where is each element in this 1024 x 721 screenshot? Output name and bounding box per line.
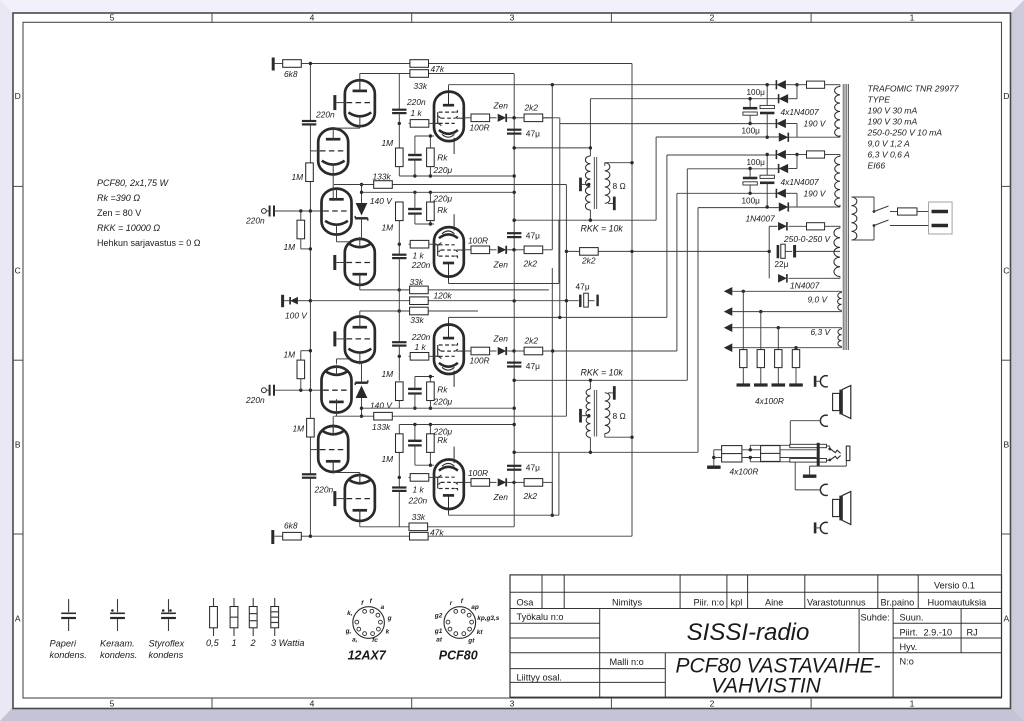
wire SRPP link upper y128.1	[333, 127, 360, 129]
wire tube V1a plate lead riser	[359, 73, 361, 90]
junction 1k-R1	[398, 355, 401, 358]
wire OPT right bar	[608, 202, 613, 204]
PSU transformer core	[842, 84, 844, 350]
junction net R1 Rk	[429, 407, 432, 410]
wire 33k-b line	[360, 310, 410, 312]
svg-text:1 k: 1 k	[411, 108, 423, 118]
legend paperi cap	[68, 599, 70, 612]
svg-text:47k: 47k	[430, 527, 444, 537]
wire 2k2 out y351.0	[543, 350, 553, 352]
wire 100R-Zen y351.0	[490, 350, 497, 352]
junction x514 y147.9	[513, 146, 516, 149]
frame tick right 3	[1002, 533, 1012, 535]
wire bank out row1	[780, 449, 817, 451]
wire bank left feed bottom y461.8	[750, 461, 795, 463]
legend resistor 0.5W	[213, 598, 215, 607]
wire D2 out	[788, 98, 797, 100]
ground bar heater 3	[772, 383, 786, 386]
wire net P1 220u leads	[414, 160, 416, 176]
wire grid chain x399.3 seg5	[398, 258, 400, 342]
svg-text:A: A	[1003, 614, 1009, 624]
wire SRPP link lower y472.5	[333, 472, 360, 474]
wire D1 out	[786, 84, 797, 86]
capacitor 220n couple P2	[392, 254, 406, 256]
wire V2a plate to 33k-b	[359, 311, 361, 317]
wire heater res bottom 4	[795, 368, 797, 384]
wire junction-2k2 y249.8	[514, 249, 524, 251]
wire rail C1 y123.6	[560, 123, 777, 125]
svg-text:8 Ω: 8 Ω	[613, 181, 626, 191]
resistor 2k2 B-feed	[580, 248, 599, 256]
wire rail B1 y98.7	[590, 98, 778, 100]
connector plug bar	[814, 376, 817, 387]
wire zener to V1d top	[361, 218, 363, 239]
junction lower 2k2 x552.7	[551, 349, 554, 352]
svg-text:Zen: Zen	[493, 334, 509, 344]
mains plug box	[929, 202, 953, 234]
resistor 33k-b	[410, 307, 429, 315]
svg-text:kondens.: kondens.	[50, 650, 87, 660]
wire heater drop 2	[760, 312, 762, 350]
svg-text:3: 3	[510, 698, 515, 708]
frame tick bottom 2	[411, 698, 413, 709]
svg-text:Varastotunnus: Varastotunnus	[807, 597, 866, 607]
wire left rail x310 upper	[309, 64, 311, 121]
page bevel background top	[0, 0, 1024, 13]
svg-text:C: C	[1003, 266, 1009, 276]
terminal bar 100V	[281, 295, 284, 307]
ground bar heater 1	[737, 383, 751, 386]
junction x514 y220.2	[513, 219, 516, 222]
wire fuse	[797, 154, 807, 156]
junction input/1M lower	[299, 389, 302, 392]
resistor 100R heater 1	[740, 350, 747, 368]
resistor 120k	[410, 297, 429, 305]
svg-text:Huomautuksia: Huomautuksia	[928, 597, 988, 607]
pentode P2	[434, 214, 464, 280]
junction capA bottom	[748, 122, 751, 125]
capacitor 220n couple P1	[392, 109, 406, 111]
legend resistor 3W	[274, 598, 276, 607]
tube V2c triode	[318, 426, 348, 472]
svg-text:3 Wattia: 3 Wattia	[271, 638, 305, 648]
wire pentode R2 plate line y515.2	[449, 514, 559, 516]
wire V2c plate lead ext	[332, 461, 334, 472]
heater arrow y327.7	[724, 323, 733, 332]
terminal bar 22u right	[793, 245, 796, 258]
PSU fuse	[807, 151, 825, 158]
frame tick left 2	[13, 359, 23, 361]
svg-text:Piir. n:o: Piir. n:o	[694, 597, 725, 607]
junction 47u P2 top	[513, 219, 516, 222]
wire net R1 top y408.2	[362, 407, 515, 409]
wire net R1 220u leads	[414, 394, 416, 409]
PSU diode D3	[776, 119, 786, 128]
svg-text:RKK = 10k: RKK = 10k	[581, 368, 624, 378]
PSU diode D2	[779, 94, 789, 103]
svg-text:Versio 0.1: Versio 0.1	[934, 581, 975, 591]
svg-text:4x1N4007: 4x1N4007	[781, 107, 820, 117]
wire junction-2k2 y482.4	[514, 481, 524, 483]
PSU rail diode D1	[776, 150, 786, 159]
wire bank mid row2	[742, 457, 761, 459]
resistor 1M left upper	[306, 163, 314, 182]
wire B+ bottom rail y536.2	[310, 535, 632, 537]
wire output line y249.8	[464, 249, 471, 251]
jack sleeve bar	[817, 443, 820, 467]
resistor 1M net	[396, 148, 404, 167]
svg-text:Malli n:o: Malli n:o	[610, 657, 644, 667]
wire 33k-low line y526.8	[360, 526, 514, 528]
svg-text:Aine: Aine	[765, 597, 783, 607]
wire input upper	[266, 210, 269, 212]
junction OPT left bar	[587, 183, 590, 186]
junction capB top	[766, 153, 769, 156]
heater arrow y291.3	[724, 287, 733, 296]
title block hline row3 left	[510, 622, 600, 624]
svg-text:220n: 220n	[406, 97, 426, 107]
wire 250V-2 out	[789, 277, 831, 279]
diode Zen y249.8	[498, 246, 507, 254]
capacitor 100u B	[760, 105, 774, 108]
wire OPT2 primary bottom lead	[589, 438, 591, 453]
svg-text:kt: kt	[477, 629, 484, 636]
switch mains bottom	[874, 220, 889, 226]
svg-text:kondens.: kondens.	[100, 650, 137, 660]
wire rail D2 y207.6	[698, 207, 779, 209]
svg-text:4x100R: 4x100R	[730, 467, 759, 477]
svg-text:TRAFOMIC TNR 29977: TRAFOMIC TNR 29977	[868, 84, 960, 94]
heater arrow y311.6	[724, 307, 733, 316]
svg-text:1: 1	[232, 638, 237, 648]
jack body rect	[846, 446, 850, 461]
transformer OPT primary coil	[585, 156, 590, 210]
input terminal upper	[262, 209, 267, 214]
wire heater drop 4	[795, 348, 797, 350]
svg-text:Rk =390 Ω: Rk =390 Ω	[97, 193, 140, 203]
wire net P1 cathode wire y136	[415, 135, 434, 137]
junction zener/Rk2-wire	[360, 191, 363, 194]
svg-text:Zen = 80 V: Zen = 80 V	[97, 208, 141, 218]
PSU diode D3	[776, 189, 786, 198]
wire rail C2 y193.3	[677, 192, 777, 194]
svg-text:100μ: 100μ	[742, 127, 761, 136]
svg-text:2k2: 2k2	[524, 103, 539, 113]
mains plug prong bottom	[932, 224, 949, 227]
resistor 133k upper	[374, 181, 393, 189]
wire net R2 Rk leads	[429, 425, 431, 434]
terminal bar OPT left	[579, 409, 582, 423]
wire x552.3 y471-482 2k2-4 corner	[551, 482, 553, 515]
ground bar jack	[803, 475, 817, 478]
legend styroflex dots	[162, 609, 165, 612]
svg-text:1N4007: 1N4007	[746, 213, 776, 223]
resistor 100R heater 3	[775, 350, 782, 368]
junction input/left-rail upper	[309, 209, 312, 212]
svg-text:TYPE: TYPE	[868, 95, 891, 105]
PSU transformer winding 190V-2	[835, 156, 840, 206]
wire output line y117.8	[464, 117, 471, 119]
junction zener/Rk3-wire low	[360, 407, 363, 410]
pentode P1 upper	[434, 88, 464, 154]
resistor 2k2 y482.4	[524, 479, 543, 487]
svg-text:kp,g3,s: kp,g3,s	[477, 615, 499, 622]
jack switch lever 2	[830, 456, 841, 461]
resistor 47k bottom	[410, 532, 429, 540]
wire heater drop 1	[742, 291, 744, 349]
svg-text:100μ: 100μ	[747, 88, 766, 97]
wire OPT1 primary bottom lead	[589, 210, 591, 220]
svg-text:Rk: Rk	[437, 205, 448, 215]
zener diode 140V lower	[356, 386, 368, 399]
junction x514 y452.3	[513, 451, 516, 454]
svg-text:220μ: 220μ	[433, 396, 453, 406]
svg-text:g2: g2	[434, 613, 443, 620]
wire V1b cathode to V1c plate	[332, 176, 334, 201]
capacitor 47u R2	[507, 465, 521, 467]
resistor 100R heater 4	[792, 350, 799, 368]
svg-text:a,: a,	[352, 637, 358, 644]
wire net R1 cathode wire y376.5	[415, 376, 434, 378]
wire 2k2-1 output to corner y117.8	[543, 117, 560, 119]
svg-text:1M: 1M	[284, 350, 296, 360]
wire tube V2a plate lead riser low	[359, 512, 361, 527]
svg-text:9,0 V 1,2 A: 9,0 V 1,2 A	[868, 139, 910, 149]
svg-text:2: 2	[710, 13, 715, 23]
wire 33k-a line	[360, 289, 410, 291]
capacitor 220n couple R1	[392, 341, 406, 343]
svg-text:PCF80, 2x1,75 W: PCF80, 2x1,75 W	[97, 178, 170, 188]
capacitor 100u A	[743, 107, 757, 110]
wire pentode R1 plate lead	[448, 317, 450, 325]
wire staircase x666.9	[666, 155, 668, 317]
junction 47u P2 bottom	[512, 248, 515, 251]
junction mains bottom	[873, 224, 876, 227]
wire V1c cathode link	[336, 235, 338, 242]
wire left rail x310 lower	[309, 479, 311, 537]
junction 47u P1 bottom	[513, 146, 516, 149]
capacitor 47u P2	[507, 232, 521, 234]
connector socket C	[820, 376, 827, 387]
wire net R2 220u leads	[414, 425, 416, 441]
capacitor 220n couple R2	[392, 486, 406, 488]
svg-text:g1: g1	[434, 628, 443, 635]
wire pentode R1 plate line y317.4	[449, 316, 667, 318]
frame tick top 2	[411, 13, 413, 22]
wire staircase x676.9	[676, 193, 678, 351]
junction capB bottom	[766, 136, 769, 139]
title block vline osa	[541, 575, 543, 609]
junction net P1 220u	[413, 174, 416, 177]
wire OPT2 secondary bottom link y437.2	[605, 436, 633, 438]
wire pentode P1 plate lead	[448, 85, 450, 92]
junction 47u R2 top	[513, 451, 516, 454]
PSU transformer primary coil	[852, 197, 857, 240]
legend resistor 1W	[233, 598, 235, 607]
wire 133k line lower	[334, 415, 567, 417]
title block hline row3 right	[893, 622, 1001, 624]
svg-text:47μ: 47μ	[526, 129, 540, 139]
junction 100V/left-rail	[309, 299, 312, 302]
mains plug prong top	[932, 210, 949, 213]
terminal bar OPT right	[613, 197, 616, 211]
resistor 100R bank B1	[761, 446, 780, 454]
tube V2b triode	[322, 367, 352, 413]
wire fuse	[797, 84, 807, 86]
svg-text:9,0 V: 9,0 V	[808, 294, 829, 304]
svg-text:8 Ω: 8 Ω	[613, 411, 626, 421]
transformer OPT primary coil	[586, 389, 591, 438]
wire vertical x552.3 lower	[551, 268, 553, 515]
svg-text:47μ: 47μ	[526, 231, 540, 241]
wire OPT2 primary top lead	[589, 380, 591, 389]
junction net P1 cath	[429, 134, 432, 137]
junction OPT2 secondary bottom	[630, 436, 633, 439]
svg-text:47k: 47k	[431, 64, 445, 74]
svg-text:g,: g,	[345, 628, 352, 635]
wire cap B leads	[766, 85, 768, 106]
svg-text:Zen: Zen	[493, 100, 509, 110]
resistor 6k8 top	[283, 60, 302, 68]
wire OPT right bar	[608, 392, 613, 394]
resistor 100R y117.8	[471, 114, 490, 122]
junction 6k8/B+ bottom	[309, 535, 312, 538]
legend styroflex cap	[168, 599, 170, 612]
tube V1b triode	[318, 129, 348, 175]
svg-text:4x100R: 4x100R	[755, 396, 784, 406]
fuse mains	[898, 208, 918, 215]
wire corner x559.8 down	[559, 118, 561, 318]
PSU rail diode D1	[776, 80, 786, 89]
PSU transformer winding 6.3V	[838, 329, 842, 346]
speaker icon	[833, 393, 840, 410]
frame tick top 4	[810, 13, 812, 22]
junction OPT1 top y147.9	[589, 146, 592, 149]
svg-text:A: A	[15, 614, 21, 624]
terminal bar 6k8 bottom	[271, 530, 274, 544]
wire staircase x698 to OPT2 bottom	[697, 451, 699, 453]
frame tick top 1	[211, 13, 213, 22]
PSU diode D2	[779, 164, 789, 173]
wire grid chain x399.3 seg6	[398, 346, 400, 381]
junction net R2 Rk	[429, 423, 432, 426]
title block hline row1	[510, 591, 1002, 593]
wire net R2 cathode wire y465.2	[415, 464, 434, 466]
svg-text:C: C	[15, 266, 21, 276]
svg-text:2k2: 2k2	[581, 256, 596, 266]
junction 6k8/B+	[309, 62, 312, 65]
wire mains bottom	[852, 239, 875, 241]
junction capB bottom	[766, 205, 769, 208]
wire C2 lead	[790, 420, 821, 422]
svg-text:220μ: 220μ	[433, 194, 453, 204]
wire staircase x687.3	[686, 169, 688, 380]
svg-text:100 V: 100 V	[285, 311, 308, 321]
tube V2a triode lower (SRPP top)	[345, 317, 375, 363]
svg-text:1: 1	[910, 698, 915, 708]
junction 47u R1 bottom	[513, 379, 516, 382]
svg-text:Styroflex: Styroflex	[149, 639, 185, 649]
junction net R1 220u	[413, 407, 416, 410]
wire grid chain x399.3 seg4	[398, 220, 400, 255]
legend resistor 2W	[252, 598, 254, 607]
svg-text:SISSI-radio: SISSI-radio	[687, 619, 810, 646]
resistor 100R bank A2	[722, 454, 742, 462]
page bevel background right	[1011, 0, 1024, 721]
diode Zen y351.0	[498, 347, 507, 355]
transformer OPT secondary coil	[605, 393, 610, 434]
resistor Rk net	[427, 382, 435, 401]
wire D2 out	[788, 168, 797, 170]
title block vline varasto	[877, 575, 879, 609]
svg-text:220n: 220n	[315, 110, 335, 120]
svg-text:Suhde:: Suhde:	[861, 613, 890, 623]
wire 133k line upper	[334, 184, 567, 186]
wire pentode P2 plate line y283.5	[449, 283, 559, 285]
svg-text:220n: 220n	[245, 395, 265, 405]
wire vertical x514.2 long	[513, 74, 515, 528]
svg-text:190 V: 190 V	[804, 189, 827, 199]
junction D1	[795, 83, 798, 86]
svg-text:1M: 1M	[292, 172, 304, 182]
svg-text:250-0-250 V: 250-0-250 V	[783, 234, 832, 244]
svg-text:47μ: 47μ	[576, 282, 590, 292]
heater arrow y347.7	[724, 343, 733, 352]
resistor 1M grid lower	[297, 360, 305, 379]
wire vertical x566.4 mid	[565, 185, 567, 417]
pentode R1 lower	[434, 321, 464, 387]
wire x558.9 lower riser	[558, 452, 560, 515]
svg-text:Rk: Rk	[437, 435, 448, 445]
wire OPT left bar	[582, 415, 589, 417]
wire Zen-junction y482.4	[507, 481, 514, 483]
connector socket C	[820, 484, 827, 495]
svg-text:2k2: 2k2	[523, 258, 538, 268]
wire OPT1 primary top riser x590.4	[589, 99, 591, 156]
junction net R2 220u	[413, 423, 416, 426]
svg-text:a: a	[381, 604, 385, 611]
junction capB top	[766, 83, 769, 86]
wire output line y351.0	[464, 350, 471, 352]
wire 250V line y251.4	[566, 250, 769, 252]
title block vline leftcol	[599, 609, 601, 698]
svg-text:B: B	[15, 440, 21, 450]
title block hline row4 right	[893, 637, 1001, 639]
wire pentode R2 plate lead	[448, 507, 450, 515]
resistor 1k R1	[410, 353, 429, 361]
junction 47u P1 top	[513, 116, 516, 119]
svg-text:33k: 33k	[414, 81, 428, 91]
resistor 6k8 bottom	[283, 532, 302, 540]
wire mains bottom line	[890, 225, 931, 227]
svg-text:2.9.-10: 2.9.-10	[924, 627, 953, 637]
svg-text:Hyv.: Hyv.	[900, 642, 918, 652]
wire heater y347.7	[732, 347, 841, 349]
tube V1a triode upper-left (SRPP top)	[345, 80, 375, 126]
svg-text:220μ: 220μ	[433, 426, 453, 436]
ground bar bank	[707, 466, 721, 469]
wire 2k2 out y482.4	[543, 481, 553, 483]
resistor 1k R2	[410, 474, 429, 482]
resistor Rk net	[427, 202, 435, 221]
wire bank row1 lead	[714, 449, 722, 451]
junction bank mid row2	[749, 456, 752, 459]
wire x558.9 upper riser	[558, 220, 560, 283]
wire net R2 top y424.5	[399, 424, 514, 426]
junction OPT left bar	[587, 414, 590, 417]
svg-text:1M: 1M	[382, 454, 394, 464]
junction mains top	[873, 210, 876, 213]
